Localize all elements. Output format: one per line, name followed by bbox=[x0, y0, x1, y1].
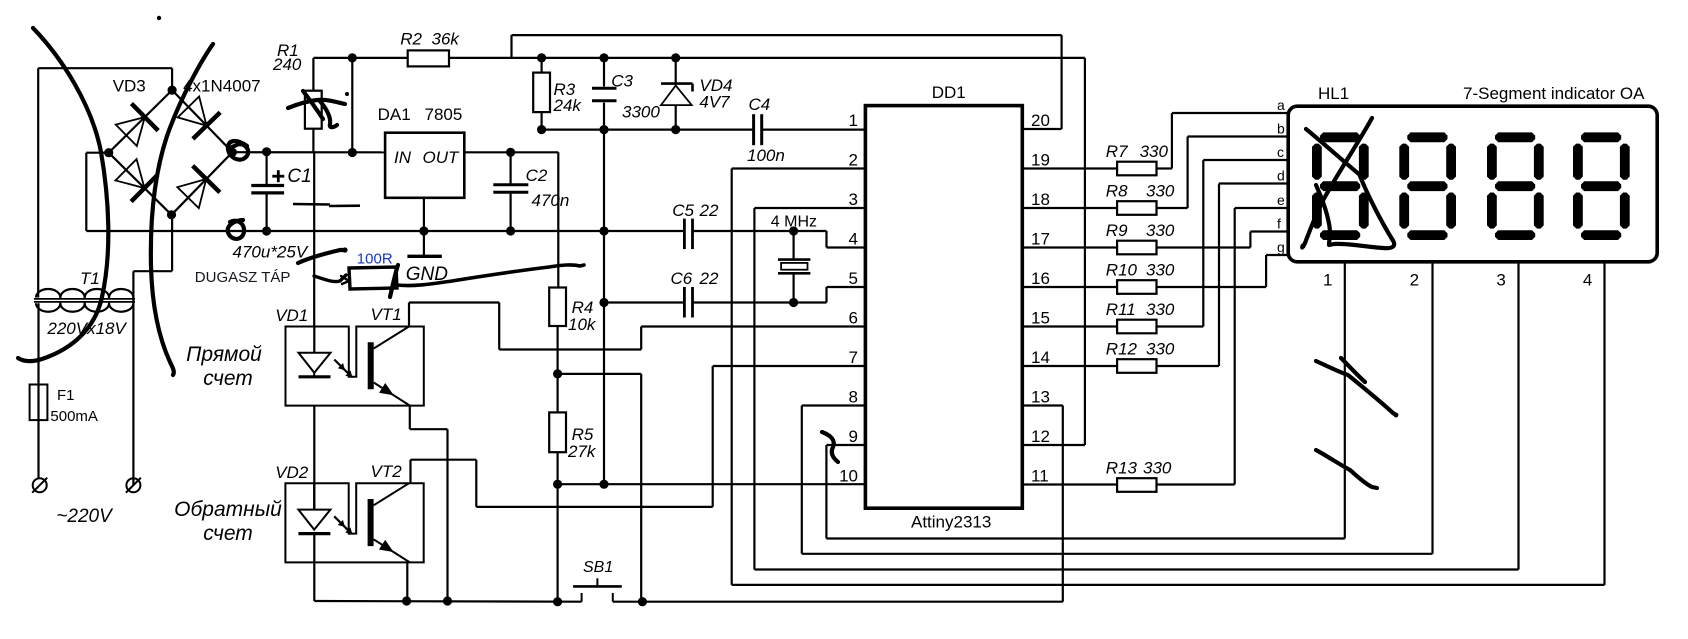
svg-text:R9: R9 bbox=[1106, 221, 1128, 240]
svg-text:SB1: SB1 bbox=[583, 559, 613, 576]
svg-text:C6: C6 bbox=[671, 269, 693, 288]
svg-text:14: 14 bbox=[1031, 348, 1050, 367]
svg-text:Обратный: Обратный bbox=[174, 498, 282, 521]
svg-text:C2: C2 bbox=[526, 166, 548, 185]
svg-text:100R: 100R bbox=[357, 251, 393, 268]
svg-text:13: 13 bbox=[1031, 388, 1050, 407]
svg-text:DA1: DA1 bbox=[378, 105, 411, 124]
svg-text:330: 330 bbox=[1146, 182, 1175, 201]
svg-text:T1: T1 bbox=[80, 269, 100, 288]
svg-text:VD2: VD2 bbox=[275, 463, 309, 482]
svg-text:9: 9 bbox=[849, 427, 858, 446]
svg-text:17: 17 bbox=[1031, 230, 1050, 249]
svg-text:10k: 10k bbox=[568, 315, 597, 334]
svg-text:7: 7 bbox=[849, 348, 858, 367]
svg-text:330: 330 bbox=[1146, 300, 1175, 319]
svg-text:F1: F1 bbox=[57, 387, 75, 404]
svg-text:240: 240 bbox=[272, 55, 302, 74]
svg-text:24k: 24k bbox=[553, 96, 583, 115]
svg-text:DUGASZ TÁP: DUGASZ TÁP bbox=[195, 269, 291, 286]
svg-text:R7: R7 bbox=[1106, 142, 1128, 161]
svg-text:22: 22 bbox=[699, 269, 719, 288]
svg-text:R10: R10 bbox=[1106, 261, 1138, 280]
svg-text:12: 12 bbox=[1031, 427, 1050, 446]
svg-text:20: 20 bbox=[1031, 111, 1050, 130]
svg-text:R2: R2 bbox=[400, 30, 422, 49]
svg-text:27k: 27k bbox=[567, 442, 597, 461]
svg-text:36k: 36k bbox=[432, 30, 461, 49]
svg-text:4: 4 bbox=[1583, 271, 1592, 290]
svg-text:счет: счет bbox=[203, 367, 253, 390]
svg-text:Прямой: Прямой bbox=[186, 343, 262, 366]
svg-text:2: 2 bbox=[849, 151, 858, 170]
svg-text:500mA: 500mA bbox=[50, 408, 98, 425]
svg-text:R13: R13 bbox=[1106, 459, 1138, 478]
svg-text:g: g bbox=[1277, 239, 1285, 255]
svg-text:330: 330 bbox=[1146, 261, 1175, 280]
svg-text:7-Segment indicator OA: 7-Segment indicator OA bbox=[1463, 84, 1645, 103]
svg-text:100n: 100n bbox=[747, 146, 785, 165]
svg-text:330: 330 bbox=[1143, 459, 1172, 478]
svg-text:VT1: VT1 bbox=[371, 305, 402, 324]
svg-text:f: f bbox=[1277, 216, 1281, 232]
svg-text:11: 11 bbox=[1031, 467, 1049, 486]
svg-text:330: 330 bbox=[1146, 340, 1175, 359]
svg-text:счет: счет bbox=[203, 522, 253, 545]
svg-text:e: e bbox=[1277, 192, 1285, 208]
svg-text:C4: C4 bbox=[749, 95, 771, 114]
svg-text:15: 15 bbox=[1031, 309, 1050, 328]
svg-text:2: 2 bbox=[1410, 271, 1419, 290]
svg-text:4x1N4007: 4x1N4007 bbox=[183, 77, 261, 96]
svg-text:d: d bbox=[1277, 168, 1285, 184]
svg-text:10: 10 bbox=[839, 467, 858, 486]
svg-text:5: 5 bbox=[849, 269, 858, 288]
svg-text:a: a bbox=[1277, 97, 1285, 113]
svg-text:IN: IN bbox=[394, 148, 412, 167]
svg-text:7805: 7805 bbox=[425, 105, 463, 124]
svg-text:4 MHz: 4 MHz bbox=[771, 214, 817, 231]
svg-text:470u*25V: 470u*25V bbox=[233, 243, 309, 262]
svg-text:3300: 3300 bbox=[622, 103, 660, 122]
svg-text:OUT: OUT bbox=[423, 148, 461, 167]
svg-text:VD3: VD3 bbox=[113, 77, 146, 96]
svg-text:16: 16 bbox=[1031, 269, 1050, 288]
svg-text:VT2: VT2 bbox=[371, 462, 403, 481]
svg-text:C3: C3 bbox=[611, 72, 633, 91]
svg-text:VD1: VD1 bbox=[275, 306, 308, 325]
svg-text:6: 6 bbox=[849, 309, 858, 328]
svg-text:3: 3 bbox=[849, 190, 858, 209]
svg-text:1: 1 bbox=[1323, 271, 1332, 290]
svg-text:HL1: HL1 bbox=[1318, 84, 1349, 103]
svg-text:Attiny2313: Attiny2313 bbox=[911, 513, 991, 532]
svg-text:4V7: 4V7 bbox=[699, 93, 730, 112]
svg-text:R8: R8 bbox=[1106, 182, 1128, 201]
svg-text:1: 1 bbox=[849, 111, 858, 130]
svg-text:3: 3 bbox=[1496, 271, 1505, 290]
svg-text:4: 4 bbox=[849, 230, 858, 249]
svg-text:c: c bbox=[1277, 144, 1284, 160]
svg-text:22: 22 bbox=[699, 201, 719, 220]
svg-text:R11: R11 bbox=[1106, 300, 1136, 319]
svg-text:470n: 470n bbox=[532, 191, 570, 210]
svg-text:R12: R12 bbox=[1106, 340, 1138, 359]
svg-text:330: 330 bbox=[1146, 221, 1175, 240]
svg-text:18: 18 bbox=[1031, 190, 1050, 209]
svg-text:8: 8 bbox=[849, 388, 858, 407]
svg-text:C1: C1 bbox=[287, 166, 311, 187]
svg-text:C5: C5 bbox=[672, 201, 694, 220]
svg-text:~220V: ~220V bbox=[56, 506, 114, 527]
svg-text:330: 330 bbox=[1140, 142, 1169, 161]
svg-text:19: 19 bbox=[1031, 151, 1050, 170]
svg-text:DD1: DD1 bbox=[932, 83, 966, 102]
svg-text:b: b bbox=[1277, 121, 1285, 137]
